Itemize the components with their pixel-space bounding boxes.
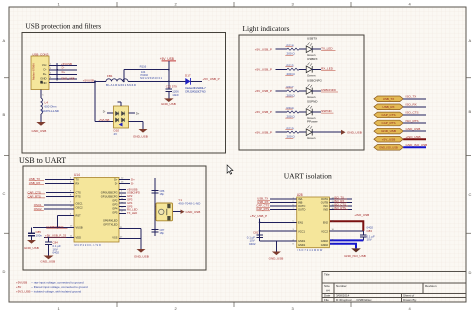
svg-text:GP4: GP4 xyxy=(112,206,118,210)
svg-text:C22 579: C22 579 xyxy=(166,85,177,89)
svg-text:10V: 10V xyxy=(367,238,372,242)
svg-text:Green: Green xyxy=(307,95,316,99)
svg-text:ISO7242MDW: ISO7242MDW xyxy=(297,249,323,252)
wire xyxy=(40,114,42,122)
svg-text:GND2: GND2 xyxy=(321,243,329,247)
svg-text:GP2: GP2 xyxy=(112,198,118,202)
svg-text:ISO_TX: ISO_TX xyxy=(406,95,417,99)
wire RST drop xyxy=(57,216,59,228)
svg-text:VCC2: VCC2 xyxy=(321,229,328,233)
svg-text:Green: Green xyxy=(307,136,316,140)
svg-text:600 Ohm: 600 Ohm xyxy=(45,105,57,109)
svg-text:C: C xyxy=(469,192,472,197)
svg-text:ISO_RX: ISO_RX xyxy=(406,103,417,107)
svg-text:DFLS240LDICT-ND: DFLS240LDICT-ND xyxy=(185,90,205,94)
ESD array D10 xyxy=(114,102,129,136)
svg-text:USBTX: USBTX xyxy=(307,37,317,41)
port USB_CTS xyxy=(374,111,426,118)
svg-text:RX_LED: RX_LED xyxy=(127,208,138,212)
port USB_RTS xyxy=(374,119,426,126)
svg-text:GP6/RXLED: GP6/RXLED xyxy=(103,218,118,222)
svg-text:UART isolation: UART isolation xyxy=(284,171,332,180)
svg-text:0402: 0402 xyxy=(249,242,256,246)
svg-text:+5V_USB: +5V_USB xyxy=(382,137,395,141)
svg-text:USB protection and filters: USB protection and filters xyxy=(26,23,102,31)
svg-text:D+: D+ xyxy=(136,111,140,115)
svg-text:GP4: GP4 xyxy=(127,201,133,205)
svg-text:VDD: VDD xyxy=(76,235,82,239)
svg-text:Size: Size xyxy=(324,284,330,288)
svg-text:INB: INB xyxy=(298,201,303,205)
ground GND_USB xyxy=(40,256,55,264)
svg-text:D-: D- xyxy=(44,68,47,72)
svg-text:+5VUSB: +5VUSB xyxy=(16,281,27,285)
svg-text:IND: IND xyxy=(324,208,329,212)
connector USB_CON3 xyxy=(31,52,52,96)
svg-text:D17: D17 xyxy=(185,74,191,78)
svg-text:GND_USB: GND_USB xyxy=(161,102,176,106)
svg-text:USBCNFD: USBCNFD xyxy=(127,191,140,195)
svg-text:+5V_USB_P: +5V_USB_P xyxy=(255,47,272,51)
svg-text:+5V_USB_P: +5V_USB_P xyxy=(255,67,272,71)
svg-text:Green: Green xyxy=(307,73,316,77)
svg-text:OUTB: OUTB xyxy=(321,201,328,205)
svg-text:+5VUSB: +5VUSB xyxy=(99,118,110,122)
svg-text:GP3: GP3 xyxy=(127,198,133,202)
svg-text:GND_USB: GND_USB xyxy=(406,127,421,131)
svg-text:GND2: GND2 xyxy=(321,239,329,243)
svg-text:NRAS5M4F01: NRAS5M4F01 xyxy=(140,76,163,80)
svg-text:Number: Number xyxy=(336,284,347,288)
svg-text:10nF: 10nF xyxy=(172,93,179,97)
svg-text:-- isolated voltage, with isol: -- isolated voltage, with isolated groun… xyxy=(31,290,82,294)
svg-text:D:\Dropbox\.. ..\USB\IsDec: D:\Dropbox\.. ..\USB\IsDec xyxy=(336,298,372,302)
svg-text:GND1: GND1 xyxy=(298,243,306,247)
svg-text:EN2: EN2 xyxy=(323,220,329,224)
svg-text:+ISO_USB: +ISO_USB xyxy=(406,135,421,139)
mouse cursor xyxy=(227,165,233,174)
svg-text:0402: 0402 xyxy=(53,251,60,255)
ground GND_USB xyxy=(133,129,148,139)
port +5V_USB xyxy=(374,135,426,142)
svg-text:USBCNFD: USBCNFD xyxy=(321,88,337,92)
wire to ESD array xyxy=(95,81,114,121)
port USB_TX xyxy=(374,95,426,102)
svg-text:D-: D- xyxy=(62,66,65,70)
svg-text:+ISO_USB: +ISO_USB xyxy=(354,213,369,217)
svg-text:+5V_USB_P: +5V_USB_P xyxy=(255,110,272,114)
capacitor C85 xyxy=(28,228,42,241)
svg-text:GND_USB: GND_USB xyxy=(40,259,55,263)
svg-text:GP0/USBCFG: GP0/USBCFG xyxy=(101,190,118,194)
capacitor C83 xyxy=(360,226,375,242)
power +5V_USB xyxy=(160,57,176,82)
svg-text:PPower: PPower xyxy=(307,120,318,124)
svg-text:-- raw input voltage, connecte: -- raw input voltage, connected to groun… xyxy=(31,281,84,285)
capacitor C22 xyxy=(166,81,180,98)
svg-text:B: B xyxy=(469,109,472,114)
svg-text:VCC1: VCC1 xyxy=(298,229,305,233)
svg-text:GND_USB: GND_USB xyxy=(133,135,148,139)
wire left power rail xyxy=(260,219,297,252)
svg-text:A: A xyxy=(3,38,6,43)
svg-text:SSPND: SSPND xyxy=(307,100,318,104)
crystal Y1 xyxy=(156,198,200,221)
diode D17 xyxy=(185,74,206,94)
svg-text:Revision: Revision xyxy=(425,284,437,288)
svg-text:TX_LED: TX_LED xyxy=(127,211,137,215)
LED row 5: resistor R116, LED PPower, ground xyxy=(255,120,362,141)
svg-text:18p: 18p xyxy=(160,192,165,196)
svg-text:INC: INC xyxy=(324,204,329,208)
wire D+ out xyxy=(129,112,136,114)
svg-text:Light indicators: Light indicators xyxy=(243,24,290,33)
svg-text:GP5: GP5 xyxy=(112,210,118,214)
ground GND_USB xyxy=(269,252,284,261)
svg-text:-- filtered input voltage, con: -- filtered input voltage, connected to … xyxy=(31,285,88,289)
svg-text:USBCNFG: USBCNFG xyxy=(307,78,323,82)
svg-text:RTS: RTS xyxy=(76,194,81,198)
svg-text:OSC2: OSC2 xyxy=(76,205,84,209)
svg-text:+5VUSB: +5VUSB xyxy=(83,79,94,83)
svg-text:RST: RST xyxy=(76,213,82,217)
svg-text:VUSB: VUSB xyxy=(76,225,83,229)
svg-text:GND_USB: GND_USB xyxy=(24,246,39,250)
svg-text:P0402: P0402 xyxy=(141,73,149,77)
svg-text:490-7048-1-ND: 490-7048-1-ND xyxy=(178,201,200,205)
ferrite bead FB1 xyxy=(106,74,136,87)
svg-text:EN1: EN1 xyxy=(298,220,304,224)
svg-text:C82: C82 xyxy=(253,231,259,235)
svg-text:USB to UART: USB to UART xyxy=(19,156,66,165)
svg-text:GND_ISO_USB: GND_ISO_USB xyxy=(379,145,398,149)
ground GND_USB xyxy=(161,98,176,106)
svg-text:C: C xyxy=(3,191,6,196)
LED row 4: resistor R114, LED SSPND, net SSPND xyxy=(255,100,334,121)
port GND_USB xyxy=(374,127,426,134)
resistor R116 xyxy=(123,64,170,82)
svg-text:R117: R117 xyxy=(287,85,294,89)
capacitor C86 xyxy=(152,189,165,196)
svg-text:GND_USB: GND_USB xyxy=(134,255,149,259)
svg-text:18p: 18p xyxy=(160,231,165,235)
ground GND_USB xyxy=(341,130,346,135)
svg-text:100n: 100n xyxy=(36,233,43,237)
svg-text:D+: D+ xyxy=(62,70,66,74)
capacitor C82 xyxy=(247,231,263,246)
svg-text:File: File xyxy=(324,298,329,302)
svg-text:+5V_USB_P: +5V_USB_P xyxy=(250,214,267,218)
svg-text:CAP_CTS: CAP_CTS xyxy=(381,113,395,117)
svg-text:USB_RX: USB_RX xyxy=(382,105,394,109)
svg-text:GND1: GND1 xyxy=(298,239,306,243)
port USB_RX xyxy=(374,103,426,110)
wires left pins xyxy=(270,199,297,210)
svg-text:R115: R115 xyxy=(287,64,294,68)
svg-text:GND_USB: GND_USB xyxy=(269,256,284,260)
wire connector pins xyxy=(41,63,77,98)
wires left pins xyxy=(33,180,74,238)
svg-text:D-: D- xyxy=(115,181,118,185)
svg-text:TX_LED: TX_LED xyxy=(321,46,333,50)
svg-text:RX_LED: RX_LED xyxy=(321,67,334,71)
svg-text:R116: R116 xyxy=(140,64,147,68)
svg-text:USBRX: USBRX xyxy=(307,57,318,61)
LED row 2: resistor R115, LED USBRX, net RX_LED xyxy=(255,57,336,78)
svg-text:+5VUSB: +5VUSB xyxy=(61,62,72,66)
svg-text:GND_ISO_USB: GND_ISO_USB xyxy=(406,143,428,147)
LED row 3: resistor R117, LED USBCNFG, net USBCNFD xyxy=(255,78,338,99)
svg-text:GP2: GP2 xyxy=(127,194,133,198)
svg-text:D-: D- xyxy=(103,110,106,114)
svg-text:FB1: FB1 xyxy=(107,74,113,78)
svg-text:GND_USB: GND_USB xyxy=(32,129,47,133)
red param underlines xyxy=(285,45,292,47)
svg-text:742-673-1-1-ND: 742-673-1-1-ND xyxy=(41,109,59,113)
svg-text:VSS: VSS xyxy=(112,235,117,239)
svg-text:D+: D+ xyxy=(114,177,118,181)
svg-text:CAP_RTS: CAP_RTS xyxy=(382,121,396,125)
svg-text:+5V_USB_P: +5V_USB_P xyxy=(255,130,272,134)
svg-text:+5V3_USB: +5V3_USB xyxy=(16,290,30,294)
IC U28 ISO7242 xyxy=(297,193,330,252)
svg-text:ISO_RTS: ISO_RTS xyxy=(406,119,419,123)
svg-text:GP5: GP5 xyxy=(127,204,133,208)
ground GND_ISO_USB xyxy=(344,248,366,258)
svg-text:GND_ISO_USB: GND_ISO_USB xyxy=(344,254,366,258)
svg-text:A4: A4 xyxy=(326,289,330,293)
notes text xyxy=(16,281,88,294)
ground GND_USB right of crystal xyxy=(181,210,201,215)
wire thick +ISO_USB bus xyxy=(330,221,363,231)
svg-text:OUTC: OUTC xyxy=(298,204,305,208)
svg-text:OSC1: OSC1 xyxy=(76,201,84,205)
svg-text:GND_USB: GND_USB xyxy=(186,210,201,214)
svg-text:BLA1RG601SN4D: BLA1RG601SN4D xyxy=(106,83,136,87)
ground GND_USB xyxy=(24,240,39,250)
svg-text:Vcc: Vcc xyxy=(42,63,47,67)
svg-text:B: B xyxy=(3,112,6,117)
svg-text:D: D xyxy=(469,270,472,275)
svg-text:TX: TX xyxy=(76,177,80,181)
svg-text:D+: D+ xyxy=(43,72,47,76)
wire thick GND_ISO bus xyxy=(330,240,363,248)
svg-text:Drawn By:: Drawn By: xyxy=(403,298,417,302)
svg-text:OUTD: OUTD xyxy=(298,208,305,212)
wire to ground xyxy=(129,122,144,130)
LED row 1: resistor R118, LED USBTX, net TX_LED xyxy=(255,37,336,58)
svg-text:RX: RX xyxy=(76,181,80,185)
svg-text:U28: U28 xyxy=(297,193,303,197)
wire main 5V rail xyxy=(49,81,185,82)
svg-text:A: A xyxy=(469,38,472,43)
port GND_ISO_USB xyxy=(374,143,427,150)
IC U14 MCP2200 xyxy=(74,173,119,247)
svg-text:+5V_USB: +5V_USB xyxy=(160,57,174,61)
svg-text:GND_USB: GND_USB xyxy=(381,129,396,133)
svg-text:INA: INA xyxy=(298,197,303,201)
svg-text:Molex-67986: Molex-67986 xyxy=(32,63,36,80)
wires right pins xyxy=(329,199,363,231)
svg-text:GP3: GP3 xyxy=(112,202,118,206)
svg-text:D: D xyxy=(3,269,6,274)
ground GND_USB xyxy=(32,122,47,133)
svg-text:USB_TX: USB_TX xyxy=(383,97,394,101)
wire crystal rail xyxy=(155,178,181,236)
svg-text:D-: D- xyxy=(131,182,134,186)
svg-text:GND_USB: GND_USB xyxy=(61,77,75,81)
capacitor C87 xyxy=(152,228,165,235)
inductor L4 xyxy=(41,98,59,114)
pin numbers U28 xyxy=(293,197,335,245)
svg-text:C83: C83 xyxy=(367,229,373,233)
svg-text:R118: R118 xyxy=(287,43,294,47)
svg-text:GP7/TXLED: GP7/TXLED xyxy=(103,222,117,226)
svg-text:R114: R114 xyxy=(287,106,294,110)
pin numbers U14 xyxy=(70,177,124,238)
svg-text:+5VUSB: +5VUSB xyxy=(127,187,138,191)
wires right pins xyxy=(119,180,141,250)
svg-text:GND_USB: GND_USB xyxy=(347,130,362,134)
svg-text:SSPND: SSPND xyxy=(321,109,332,113)
svg-text:R119: R119 xyxy=(287,126,294,130)
svg-text:CTS: CTS xyxy=(76,190,81,194)
svg-text:U14: U14 xyxy=(74,173,80,177)
svg-text:+5V: +5V xyxy=(16,285,21,289)
svg-text:MCP2200-I/SO: MCP2200-I/SO xyxy=(75,244,101,247)
svg-text:Title: Title xyxy=(324,273,330,277)
capacitor C84 xyxy=(45,237,61,256)
title block xyxy=(322,272,466,303)
svg-text:OUTA: OUTA xyxy=(321,197,328,201)
svg-text:+5V_USB_P: +5V_USB_P xyxy=(203,77,220,81)
ground GND_USB under IC xyxy=(134,249,149,259)
svg-text:4V: 4V xyxy=(114,132,118,136)
svg-text:GP1/USBCFG: GP1/USBCFG xyxy=(101,194,118,198)
svg-text:ISO_CTS: ISO_CTS xyxy=(406,111,419,115)
svg-text:VUSBOUT34: VUSBOUT34 xyxy=(46,225,64,229)
svg-text:+5V_USB_P: +5V_USB_P xyxy=(255,89,272,93)
